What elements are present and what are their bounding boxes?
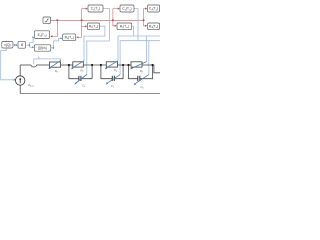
svg-text:R3: R3 <box>140 69 144 74</box>
svg-text:C1(Tw): C1(Tw) <box>91 7 100 12</box>
svg-text:C2(Tw): C2(Tw) <box>122 7 131 12</box>
svg-text:C1: C1 <box>82 83 85 88</box>
svg-text:R2: R2 <box>114 68 118 73</box>
svg-text:[∫(t)/s]: [∫(t)/s] <box>38 46 46 50</box>
svg-text:R0(Tw): R0(Tw) <box>65 36 74 41</box>
svg-text:R1(Tw): R1(Tw) <box>89 25 98 30</box>
svg-text:v(Q): v(Q) <box>4 43 10 47</box>
svg-text:E0(Tw): E0(Tw) <box>38 33 47 38</box>
svg-text:C3(Tw): C3(Tw) <box>149 7 158 12</box>
svg-text:C3: C3 <box>140 85 144 90</box>
svg-text:Pload: Pload <box>28 83 35 88</box>
svg-text:C2: C2 <box>111 84 115 89</box>
svg-text:R0: R0 <box>55 69 59 74</box>
svg-text:R2(Tw): R2(Tw) <box>120 25 129 30</box>
svg-text:R3(Tw): R3(Tw) <box>149 25 158 30</box>
svg-text:R1: R1 <box>80 68 83 73</box>
